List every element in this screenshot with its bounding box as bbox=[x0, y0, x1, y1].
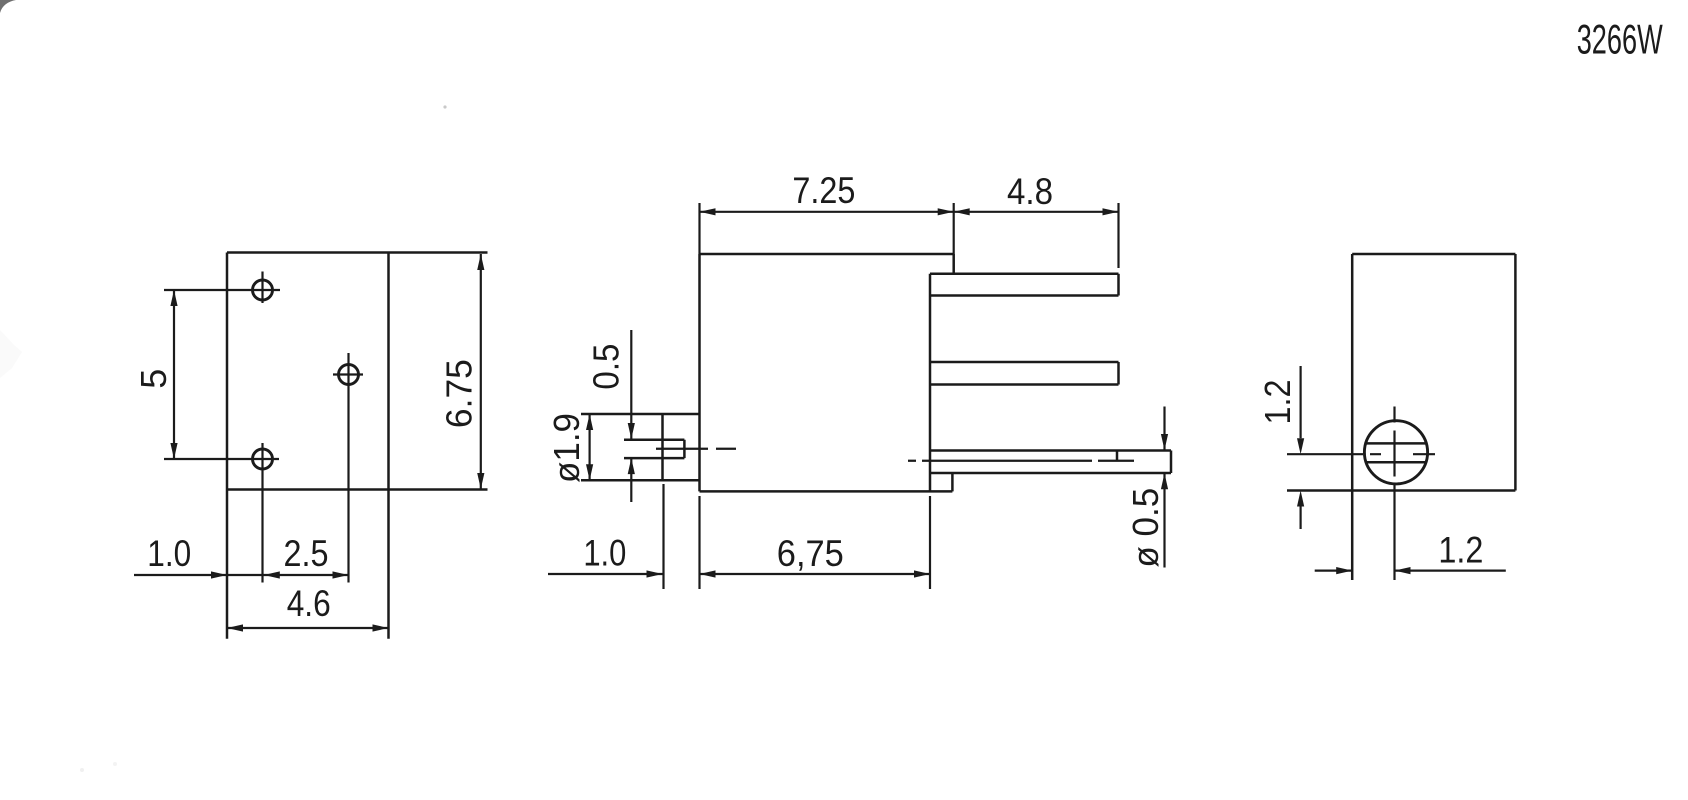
pin 2 top bbox=[930, 361, 1119, 364]
hole pin3 crosshair bbox=[164, 458, 279, 460]
dim 5 line bbox=[173, 290, 175, 459]
dim 1.2 vertical arrow up bbox=[1297, 491, 1304, 507]
svg-text:1.0: 1.0 bbox=[583, 533, 626, 574]
dim 6.75 line bbox=[480, 254, 482, 489]
dim 1.2 horizontal left leader bbox=[1315, 569, 1353, 571]
dim 1.2 vertical arrow down bbox=[1297, 438, 1304, 454]
svg-text:4.8: 4.8 bbox=[1007, 171, 1053, 212]
dim 0.5 slot upper leader bbox=[630, 330, 632, 439]
pin 3 tick bbox=[1116, 451, 1119, 462]
dim 1.0 leader mid bbox=[548, 573, 663, 575]
dim 4.8 arrow right bbox=[1103, 208, 1119, 215]
dim 4.6 arrow right bbox=[373, 624, 389, 631]
ext body right below bbox=[929, 496, 931, 589]
bottom-right tab left edge bbox=[929, 474, 932, 492]
dim 6,75 arrow right bbox=[914, 570, 930, 577]
right view v centerline bbox=[1393, 407, 1395, 581]
pin 1 bottom bbox=[930, 294, 1119, 297]
middle view body bottom bbox=[700, 490, 953, 493]
svg-text:3266W: 3266W bbox=[1577, 17, 1663, 63]
pin 1 top bbox=[930, 273, 1119, 276]
dim 7.25 arrow left bbox=[700, 208, 716, 215]
hole pin2 crosshair bbox=[333, 373, 363, 375]
svg-text:6,75: 6,75 bbox=[777, 533, 844, 574]
ext body left below bbox=[698, 496, 700, 589]
svg-text:6.75: 6.75 bbox=[439, 359, 479, 428]
hole pin1 crosshair bbox=[164, 289, 280, 291]
dim 1.0 mid arrow right bbox=[647, 570, 663, 577]
dim phi1.9 arrow down bbox=[586, 464, 593, 480]
dim 0.5 slot arrow up bbox=[628, 458, 635, 474]
dim 1.2 horizontal arrow right bbox=[1336, 567, 1352, 574]
dim 1.2 vertical lower leader bbox=[1299, 507, 1301, 530]
pin 2 bottom bbox=[930, 383, 1119, 386]
svg-text:1.0: 1.0 bbox=[147, 534, 191, 575]
svg-text:1.2: 1.2 bbox=[1438, 531, 1483, 571]
right view h centerline bbox=[1287, 453, 1435, 455]
hole pin1 circle bbox=[253, 280, 273, 300]
svg-text:ø 0.5: ø 0.5 bbox=[1126, 488, 1167, 568]
pin 3 bottom bbox=[930, 472, 1171, 475]
dim phi0.5 arrow up bbox=[1161, 473, 1168, 489]
svg-text:7.25: 7.25 bbox=[792, 171, 855, 211]
slot bottom (with ext) bbox=[624, 457, 684, 460]
dim row 1.0 / 2.5 left view bbox=[134, 574, 349, 576]
screw slot chord upper bbox=[1366, 442, 1426, 445]
pin 3 top bbox=[930, 449, 1171, 452]
pin 3 end bbox=[1170, 451, 1173, 474]
ext 4.8 right bbox=[1117, 203, 1119, 268]
watermark corner top-left bbox=[0, 0, 16, 13]
svg-text:4.6: 4.6 bbox=[287, 584, 331, 625]
dim 2.5 arrow right bbox=[333, 571, 349, 578]
screw head circle bbox=[1364, 421, 1427, 484]
ext body left above (7.25) bbox=[698, 203, 700, 254]
svg-text:0.5: 0.5 bbox=[587, 344, 627, 390]
dim 5 arrow up bbox=[170, 290, 177, 306]
ext shaft face below bbox=[662, 484, 664, 589]
svg-text:ø1.9: ø1.9 bbox=[547, 413, 588, 483]
svg-text:1.2: 1.2 bbox=[1258, 380, 1298, 425]
dim line 7.25 / 4.8 bbox=[700, 211, 1119, 213]
dim 0.5 slot lower leader bbox=[630, 458, 632, 502]
dim phi1.9 line bbox=[588, 414, 590, 480]
middle view top-right corner tab edge bbox=[952, 254, 955, 274]
dim 1.0 arrow right bbox=[211, 571, 227, 578]
dim 2.5 arrow left bbox=[264, 571, 280, 578]
shaft centerline bbox=[656, 448, 736, 450]
dim 4.6 arrow left bbox=[227, 624, 243, 631]
middle view body left edge bbox=[698, 254, 701, 491]
dim phi0.5 lower leader bbox=[1163, 473, 1165, 567]
bottom-right tab right edge bbox=[951, 474, 954, 492]
pin 2 end bbox=[1117, 362, 1120, 385]
dim 1.2 horizontal arrow left bbox=[1395, 567, 1411, 574]
dim 1.2 vertical upper leader bbox=[1299, 366, 1301, 438]
speck bottom left a bbox=[80, 768, 84, 772]
pin 1 end bbox=[1117, 274, 1120, 296]
watermark blob left-middle bbox=[0, 330, 22, 378]
slot end bbox=[683, 440, 686, 458]
hole pin3 circle bbox=[253, 449, 273, 469]
pin3 centerline bbox=[908, 460, 1134, 462]
dim 0.5 slot arrow down bbox=[628, 423, 635, 439]
dim phi0.5 arrow down bbox=[1161, 434, 1168, 450]
dim 4.6 line bbox=[227, 627, 389, 629]
shaft top (with ext) bbox=[581, 413, 700, 416]
dim 4.8 arrow left bbox=[954, 208, 970, 215]
dim phi1.9 arrow up bbox=[586, 414, 593, 430]
right view body rectangle bbox=[1352, 253, 1515, 256]
speck bottom left b bbox=[113, 762, 117, 766]
middle view body right edge bbox=[929, 274, 932, 474]
dim phi0.5 upper leader bbox=[1163, 407, 1165, 451]
dim 7.25 arrow right bbox=[938, 208, 954, 215]
middle view body top bbox=[700, 253, 954, 256]
dim 1.2 horizontal right leader bbox=[1395, 569, 1506, 571]
hole pin2 circle bbox=[339, 365, 359, 385]
shaft face bbox=[661, 414, 664, 480]
dim 6.75 arrow up bbox=[477, 254, 484, 270]
dim 6.75 arrow down bbox=[477, 473, 484, 489]
dim 5 arrow down bbox=[170, 443, 177, 459]
ext corner above (7.25/4.8) bbox=[953, 203, 955, 254]
slot top (with ext) bbox=[624, 439, 684, 442]
svg-text:5: 5 bbox=[133, 369, 174, 389]
screw slot chord lower bbox=[1366, 461, 1426, 464]
dim 6,75 line bbox=[700, 573, 931, 575]
shaft bottom (with ext) bbox=[581, 479, 700, 482]
left view body rectangle bbox=[227, 251, 488, 254]
speck top middle bbox=[443, 105, 446, 108]
dim 6,75 arrow left bbox=[700, 570, 716, 577]
svg-text:2.5: 2.5 bbox=[284, 534, 329, 574]
